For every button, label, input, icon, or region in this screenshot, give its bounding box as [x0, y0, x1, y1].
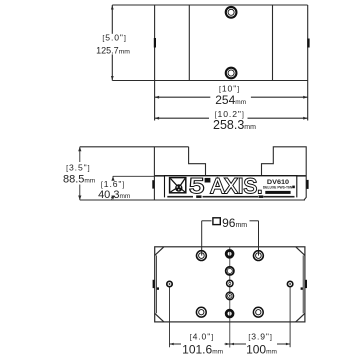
svg-text:258.3mm: 258.3mm — [213, 118, 256, 132]
svg-text:[3.5"]: [3.5"] — [66, 163, 90, 173]
svg-text:5: 5 — [189, 175, 204, 198]
svg-text:[5.0"]: [5.0"] — [102, 33, 126, 43]
svg-text:[1.6"]: [1.6"] — [101, 179, 125, 189]
svg-text:[3.9"]: [3.9"] — [248, 332, 272, 342]
svg-text:DELUXE PWS-T6N: DELUXE PWS-T6N — [263, 186, 293, 190]
svg-text:125.7mm: 125.7mm — [96, 45, 130, 55]
svg-text:40,3mm: 40,3mm — [98, 189, 130, 201]
svg-text:96mm: 96mm — [222, 216, 247, 230]
svg-text:[10"]: [10"] — [219, 83, 240, 93]
svg-text:88.5mm: 88.5mm — [63, 174, 95, 186]
svg-text:254mm: 254mm — [215, 93, 246, 107]
svg-text:100mm: 100mm — [246, 343, 277, 357]
svg-text:AXIS.: AXIS. — [211, 175, 263, 198]
svg-text:[4.0"]: [4.0"] — [190, 332, 214, 342]
svg-text:101.6mm: 101.6mm — [182, 342, 223, 356]
